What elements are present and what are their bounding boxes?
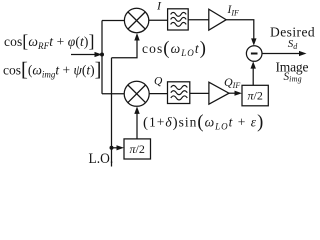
mixer M1 cross: [128, 12, 145, 29]
filter F2 wave top: [171, 85, 188, 89]
junction dot RF: [100, 53, 104, 57]
svg-text:π/2: π/2: [248, 88, 263, 102]
filter F1 wave bottom: [171, 22, 187, 26]
filter F1 wave top: [171, 12, 187, 16]
amp A1 triangle: [209, 9, 226, 30]
arrowhead RF input: [95, 52, 103, 57]
wire B1 up to M2: [136, 112, 138, 139]
filter F2 box: [168, 82, 190, 104]
arrowhead down into summer top: [251, 38, 256, 45]
filter F1 wave middle: [171, 17, 187, 21]
wire F2 to amp A2: [190, 92, 209, 94]
wire A1 output: [226, 20, 254, 39]
wire Q row M2 to F2: [149, 93, 167, 95]
mixer M1 circle: [124, 8, 148, 32]
summer circle: [246, 46, 262, 62]
svg-text:L.O.: L.O.: [89, 150, 114, 165]
pi/2 box B2: [242, 85, 268, 106]
wire trunk vertical: [101, 21, 103, 94]
wire M1 to filter F1: [149, 19, 168, 21]
wire LO to M1: [112, 39, 138, 58]
svg-text:π/2: π/2: [130, 142, 145, 156]
arrowhead into M2 bottom: [134, 106, 139, 114]
wire trunk to top mixer: [102, 20, 124, 22]
wire trunk to bottom mixer: [102, 93, 124, 95]
filter F1 box: [168, 9, 189, 30]
filter F2 wave bottom: [171, 96, 188, 100]
amp A2 triangle: [209, 82, 229, 104]
filter F2 wave middle: [171, 91, 188, 95]
svg-text:(1+δ)sin(ωLOt + ε): (1+δ)sin(ωLOt + ε): [143, 113, 264, 133]
wire summer output: [262, 53, 300, 55]
wire LO junction to pi/2 B1: [112, 147, 119, 149]
arrowhead into B1: [117, 145, 125, 150]
wire RF input arrow line: [71, 54, 96, 56]
svg-text:cos[ωRFt + φ(t)]: cos[ωRFt + φ(t)]: [4, 31, 95, 51]
arrowhead into B2: [235, 91, 243, 96]
wire B2 up to summer: [252, 67, 254, 85]
svg-text:Q: Q: [154, 76, 163, 88]
summer minus sign: [251, 53, 258, 55]
mixer M2 circle: [124, 81, 149, 106]
wire LO vertical: [111, 58, 113, 167]
arrowhead into M1 bottom: [134, 33, 139, 41]
pi/2 box B1: [124, 139, 151, 159]
svg-text:Image: Image: [276, 59, 309, 74]
wire A2 to pi/2 box: [229, 92, 237, 94]
mixer M2 cross: [128, 85, 146, 103]
arrowhead up into summer bottom: [251, 61, 256, 68]
arrowhead summer output: [299, 51, 307, 56]
junction dot LO: [110, 146, 114, 150]
wire F1 to amp A1: [188, 19, 209, 21]
